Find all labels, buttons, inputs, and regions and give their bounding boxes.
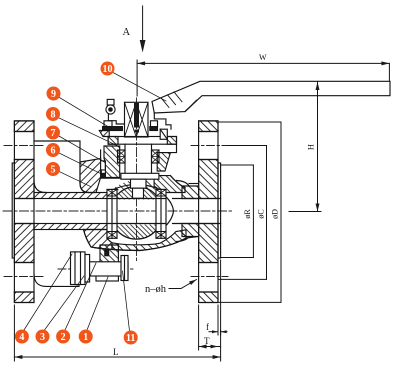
svg-text:L: L bbox=[113, 347, 119, 357]
left flange raised face bbox=[12, 163, 14, 258]
callout 4 leader bbox=[24, 254, 72, 330]
callout 11 leader bbox=[123, 271, 130, 331]
svg-text:3: 3 bbox=[40, 332, 45, 343]
body top shoulder right curve bbox=[170, 176, 185, 188]
right flange bolt hole lines top bbox=[199, 131, 218, 133]
left seat ring bbox=[107, 189, 117, 238]
svg-text:n–øh: n–øh bbox=[145, 284, 167, 295]
gland plate bbox=[108, 137, 176, 145]
ball bore top line bbox=[111, 198, 163, 200]
right seat seal X bottom bbox=[156, 232, 166, 239]
gland bolt nut right bbox=[151, 121, 158, 127]
callout 6 bbox=[46, 143, 60, 157]
svg-text:9: 9 bbox=[51, 89, 56, 100]
dim H line bbox=[317, 82, 319, 212]
callout 9 bbox=[47, 87, 61, 101]
joint boss upper hatched bbox=[100, 245, 118, 263]
callout 1 leader bbox=[87, 277, 108, 330]
stem column bbox=[124, 144, 126, 173]
body bottom wall hatched right bbox=[112, 230, 186, 251]
ball bbox=[110, 187, 163, 240]
joint bolt shaft bbox=[90, 262, 128, 276]
left seat seal X bottom bbox=[107, 232, 117, 239]
svg-text:6: 6 bbox=[51, 146, 56, 157]
ball hatch bottom cap bbox=[113, 225, 160, 239]
body cavity right wall arc bbox=[163, 194, 174, 229]
svg-text:øR: øR bbox=[243, 209, 252, 219]
bonnet right step bbox=[157, 144, 176, 152]
svg-text:11: 11 bbox=[126, 333, 135, 344]
ball hatch top cap bbox=[114, 186, 160, 200]
svg-text:10: 10 bbox=[103, 64, 113, 75]
cap bottom pocket bbox=[34, 253, 79, 286]
body neck wedge left bbox=[109, 181, 131, 193]
handle bend inner line bbox=[185, 100, 197, 111]
stem axis centerline bbox=[136, 98, 138, 262]
right hub bottom wall bbox=[182, 224, 199, 237]
right flange top bolt-hole centerline bbox=[191, 145, 228, 147]
left flange hatch upper-middle bbox=[14, 160, 34, 199]
callout 6 leader bbox=[58, 153, 103, 175]
body bottom wall hatched left bbox=[84, 230, 113, 250]
left cap bore top wall bbox=[34, 193, 108, 199]
stop pin washer circle bbox=[106, 105, 115, 114]
cap top pocket fillet right bbox=[80, 183, 89, 193]
stop pin bolt bbox=[107, 99, 114, 105]
bonnet set screw dark square bbox=[101, 173, 105, 177]
bore lines through left flange bbox=[14, 198, 34, 200]
callout 9 leader bbox=[59, 97, 113, 129]
callout 5 leader bbox=[58, 171, 91, 187]
dim D vertical bbox=[280, 122, 282, 302]
callout 4 bbox=[15, 330, 29, 344]
dim W line bbox=[137, 62, 389, 64]
left seat seal X top bbox=[107, 189, 117, 196]
callout 7 leader bbox=[58, 136, 105, 163]
stop pin center dark bbox=[108, 107, 113, 112]
handle slot marks bbox=[161, 92, 182, 108]
svg-text:T: T bbox=[204, 336, 210, 346]
pipe axis centerline bbox=[3, 210, 233, 212]
callout 3 leader bbox=[45, 276, 85, 330]
callout 2 bbox=[56, 330, 70, 344]
svg-text:5: 5 bbox=[51, 165, 56, 176]
right flange plate bbox=[199, 121, 218, 303]
right flange raised face bbox=[218, 163, 221, 258]
callout 2 tip square bbox=[105, 250, 109, 256]
bore lines across seats bbox=[107, 199, 166, 224]
right hub neck line bbox=[189, 183, 199, 185]
callout 1 bbox=[79, 330, 93, 344]
gland left dark bar bbox=[103, 127, 123, 131]
right hub top wall bbox=[182, 186, 199, 199]
svg-text:2: 2 bbox=[61, 332, 66, 343]
right hub top fillet bbox=[177, 181, 190, 187]
bonnet left bracket bbox=[101, 150, 106, 173]
left flange hatch lower-middle bbox=[14, 224, 34, 263]
left flange hatch bottom bbox=[14, 292, 34, 303]
left flange plate bbox=[14, 121, 34, 303]
joint boss lower plate bbox=[96, 273, 118, 281]
svg-text:H: H bbox=[306, 144, 316, 150]
right flange bolt hole lines bottom bbox=[199, 262, 218, 264]
right flange hatch top bbox=[199, 121, 218, 132]
dim T bbox=[198, 305, 200, 350]
bore lines right of seat bbox=[173, 198, 199, 200]
stem shaft dark bbox=[134, 103, 139, 128]
dim R vertical bbox=[252, 165, 254, 258]
right flange hatch lower-middle bbox=[199, 224, 218, 263]
dim L line bbox=[14, 356, 220, 358]
left flange bolt hole lines bottom bbox=[14, 262, 34, 264]
right flange hatch upper-middle bbox=[199, 160, 218, 199]
bonnet left hatched wall bbox=[104, 146, 120, 178]
svg-text:W: W bbox=[259, 53, 267, 62]
stem block X left bbox=[125, 102, 137, 137]
svg-text:A: A bbox=[123, 27, 131, 38]
packing rings left bbox=[118, 150, 126, 163]
svg-text:øD: øD bbox=[271, 209, 280, 219]
right seat seal X top bbox=[156, 189, 166, 196]
svg-text:4: 4 bbox=[19, 332, 24, 343]
stem thrust flange bbox=[121, 173, 159, 179]
body bottom outline bbox=[84, 230, 199, 251]
dim C vertical bbox=[266, 146, 268, 280]
gland plate hatch left bbox=[108, 137, 118, 145]
svg-text:1: 1 bbox=[83, 332, 88, 343]
body top-right hatched bbox=[154, 176, 185, 193]
cap top pocket fillet left bbox=[34, 181, 46, 193]
body joint bolt centerline bbox=[58, 268, 134, 270]
stem block bbox=[125, 102, 149, 137]
bonnet right hatched wall bbox=[157, 153, 170, 171]
stop pin bracket bbox=[108, 114, 124, 124]
handle lever bbox=[152, 81, 390, 113]
cap joint flange silhouette top bbox=[34, 141, 80, 183]
joint bolt washer bbox=[85, 255, 90, 283]
gland right boss bolt bbox=[160, 129, 167, 139]
ball bore bottom line bbox=[111, 223, 162, 225]
body neck wedge right bbox=[146, 181, 165, 193]
svg-text:8: 8 bbox=[51, 110, 56, 121]
callout 2 leader bbox=[65, 263, 96, 330]
section arrow A bbox=[142, 6, 144, 41]
callout 5 bbox=[46, 162, 60, 176]
body cavity top arc bbox=[107, 185, 166, 193]
stem lower shaft bbox=[131, 179, 147, 188]
left flange hatch top bbox=[14, 121, 34, 132]
callout 7 bbox=[46, 126, 60, 140]
right seat ring bbox=[156, 189, 166, 238]
callout 3 bbox=[36, 330, 50, 344]
callout 10 leader bbox=[112, 72, 166, 101]
left flange bottom bolt-hole centerline bbox=[4, 276, 43, 278]
gland plate hatch right bbox=[167, 137, 176, 145]
left cap bore bottom wall bbox=[34, 224, 108, 230]
dim f bbox=[217, 305, 219, 335]
callout 10 bbox=[101, 62, 115, 76]
callout 8 leader bbox=[58, 118, 118, 147]
stem block X right bbox=[136, 102, 148, 137]
gland bolt nut left bbox=[104, 121, 112, 127]
svg-text:7: 7 bbox=[51, 128, 56, 139]
body left lobe hatched bbox=[80, 159, 101, 193]
gland left step under bar bbox=[99, 131, 109, 137]
bore lines through right flange bbox=[199, 198, 221, 200]
callout 11 bbox=[124, 331, 138, 345]
joint nut bbox=[121, 256, 128, 281]
stem tang into ball bbox=[133, 188, 144, 198]
right flange hatch bottom bbox=[199, 292, 218, 303]
svg-text:øC: øC bbox=[257, 209, 266, 218]
svg-text:f: f bbox=[206, 322, 209, 332]
stem shaft dark lower block bbox=[135, 130, 139, 133]
handle clamp staircase bbox=[154, 113, 171, 129]
left flange top bolt-hole centerline bbox=[4, 145, 43, 147]
callout 8 bbox=[46, 107, 60, 121]
left flange bolt hole lines top bbox=[14, 131, 34, 133]
right hub bottom fillet bbox=[177, 237, 190, 242]
right flange bottom bolt-hole centerline bbox=[191, 276, 228, 278]
gland right dark bar bbox=[150, 127, 158, 131]
packing rings right bbox=[152, 150, 160, 163]
body cavity top-left line bbox=[101, 177, 120, 179]
joint bolt hex head bbox=[71, 252, 86, 285]
